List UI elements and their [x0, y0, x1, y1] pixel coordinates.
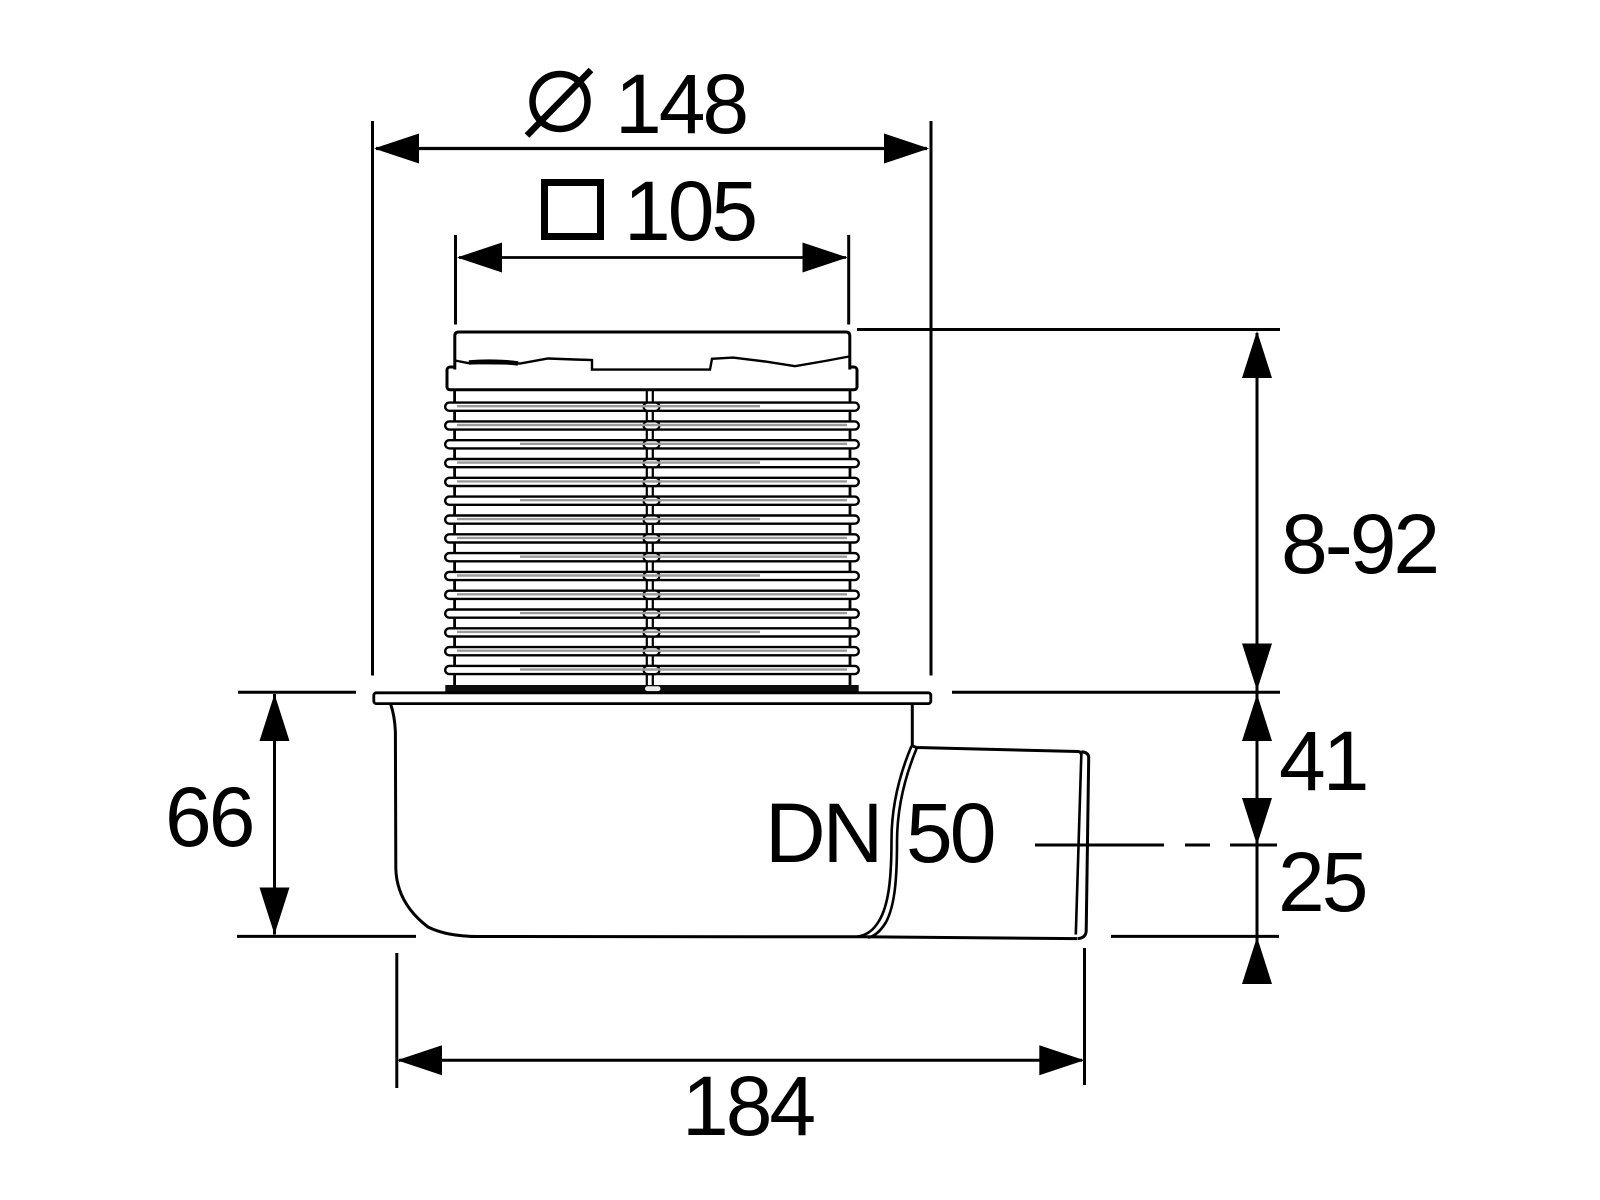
svg-text:66: 66 [165, 770, 253, 864]
square symbol of SQ105 [545, 183, 601, 237]
label 66 [165, 770, 253, 864]
dimension line SQ105 [459, 256, 846, 259]
extension line 66 top [238, 691, 356, 694]
svg-text:50: 50 [906, 786, 994, 880]
grate wavy parting line [455, 357, 849, 370]
svg-text:41: 41 [1279, 714, 1366, 808]
dimension line D148 [376, 147, 927, 150]
arrow 8-92 top (up) [1242, 331, 1272, 378]
body left wall [391, 704, 479, 937]
extension line SQ105 left [454, 235, 457, 325]
arrow 41 bottom (down) [1242, 798, 1272, 845]
svg-text:184: 184 [682, 1059, 814, 1153]
extension line flange top right [952, 691, 1280, 694]
arrow 66 top (up) [260, 694, 290, 741]
extension line 66 bottom [237, 935, 416, 938]
dimension line 66 [273, 694, 276, 935]
outlet socket joint inner curve [868, 748, 917, 938]
riser body right edge [849, 390, 852, 686]
riser body left edge [453, 390, 456, 686]
arrow 25 bottom (up, below line) [1242, 937, 1272, 984]
arrow 184 left [397, 1045, 442, 1075]
pipe centreline [1035, 844, 1164, 847]
extension line pipe bottom right [1111, 935, 1279, 938]
arrow SQ105 right [803, 243, 848, 273]
outlet socket joint outer curve [857, 746, 912, 937]
extension line SQ105 right [847, 235, 850, 325]
extension line 184 left [395, 953, 398, 1088]
grate shading sliver [469, 362, 518, 364]
extension line D148 left [371, 121, 374, 676]
riser collar [447, 367, 857, 390]
svg-text:DN: DN [765, 786, 880, 880]
svg-text:105: 105 [624, 164, 755, 258]
arrow 184 right [1039, 1045, 1084, 1075]
arrow 41 top (up) [1242, 694, 1272, 741]
diameter symbol of D148 [527, 70, 591, 136]
outlet pipe top edge [912, 746, 1081, 755]
dimension label SQ105 text [624, 164, 755, 258]
dimension line 184 [399, 1059, 1082, 1062]
outlet pipe end face outer line [1078, 752, 1089, 939]
body right wall [911, 704, 914, 746]
seam pills [644, 403, 660, 675]
arrow D148 right [884, 134, 929, 164]
right dimension chain line [1256, 333, 1259, 984]
extension line 184 right [1083, 948, 1086, 1085]
label 8-92 [1278, 497, 1437, 929]
label 184 [682, 1059, 814, 1153]
arrow 66 bottom (down) [260, 888, 290, 935]
riser top cap [455, 332, 850, 370]
flange plate [374, 693, 931, 704]
body bottom and pipe bottom [470, 937, 1077, 939]
ribs [445, 403, 859, 675]
svg-text:148: 148 [615, 57, 746, 151]
extension line D148 right [930, 121, 933, 676]
rib interior shading [457, 406, 847, 669]
arrow 8-92 bottom (down) [1242, 644, 1272, 691]
extension line top right (8-92 top) [857, 328, 1280, 331]
svg-text:8-92: 8-92 [1281, 497, 1437, 591]
dimension label D148 text [615, 57, 746, 151]
label DN 50 [765, 786, 994, 880]
seal ring dark band [445, 685, 858, 693]
riser centre seam [646, 390, 648, 686]
svg-text:25: 25 [1278, 835, 1366, 929]
seal notch [645, 686, 661, 691]
arrow SQ105 left [457, 243, 502, 273]
outlet pipe end face inner line [1076, 755, 1082, 935]
arrow D148 left [374, 134, 419, 164]
